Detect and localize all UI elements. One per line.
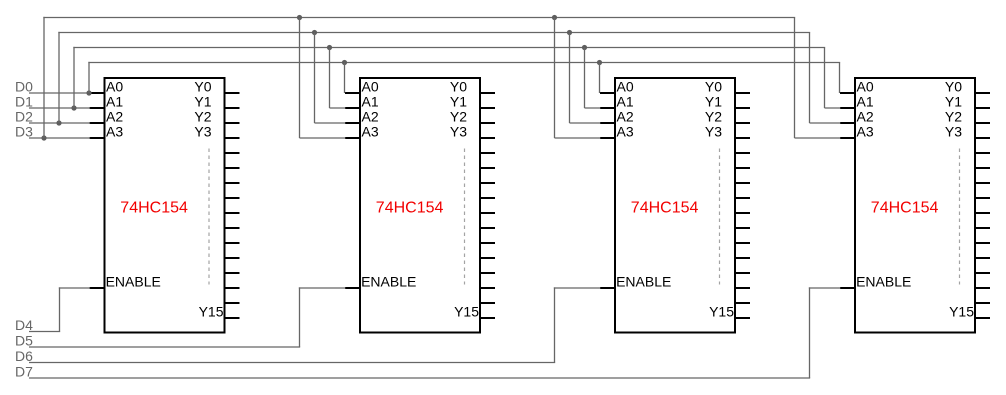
U4 pin Y5 <box>975 167 990 169</box>
svg-text:Y3: Y3 <box>705 124 722 140</box>
junction D3 tap at U2 <box>297 15 302 20</box>
U3 pin Y5 <box>735 167 750 169</box>
wire D2 drop to U2.A2 <box>314 33 316 124</box>
U2 pin Y12 <box>480 272 495 274</box>
wire D3 from label to U1.A3 <box>29 137 90 139</box>
svg-text:D4: D4 <box>15 317 33 333</box>
svg-text:A2: A2 <box>857 109 874 125</box>
U4 pin Y15 <box>975 317 990 319</box>
junction D3 tap at U3 <box>552 15 557 20</box>
U1 pin Y5 <box>225 167 240 169</box>
U2 pin Y10 <box>480 242 495 244</box>
wire D5 to U2.ENABLE <box>299 287 346 289</box>
junction D1 tap at U3 <box>582 45 587 50</box>
wire D5 horizontal <box>29 346 300 348</box>
U1 pin Y9 <box>225 227 240 229</box>
U2 pin A0 <box>345 92 360 94</box>
wire D0 riser to bus <box>88 62 90 93</box>
U2 pin Y15 <box>480 317 495 319</box>
U1 pin Y11 <box>225 257 240 259</box>
U4 pin Y11 <box>975 257 990 259</box>
U3 pin ENABLE <box>600 287 615 289</box>
U4 pin A3 <box>840 137 855 139</box>
svg-text:A3: A3 <box>362 124 379 140</box>
wire D7 riser <box>809 287 811 378</box>
wire D1 drop to U3.A1 <box>584 48 586 109</box>
svg-text:D3: D3 <box>15 124 33 140</box>
svg-text:A0: A0 <box>362 79 379 95</box>
wire D0 from label to U1.A0 <box>29 92 90 94</box>
U1 pin Y14 <box>225 302 240 304</box>
U2 pin Y3 <box>480 137 495 139</box>
U3 pin Y0 <box>735 92 750 94</box>
svg-text:Y2: Y2 <box>945 109 962 125</box>
wire D3 run to U4.A3 <box>795 137 841 139</box>
wire D7 to U4.ENABLE <box>809 287 841 289</box>
svg-text:A1: A1 <box>857 94 874 110</box>
U1 pin Y13 <box>225 287 240 289</box>
wire D1 bus <box>73 47 825 49</box>
junction D3 at U1 riser <box>41 135 46 140</box>
svg-text:D6: D6 <box>15 348 33 364</box>
U3 pin Y10 <box>735 242 750 244</box>
svg-text:ENABLE: ENABLE <box>616 274 671 290</box>
wire D1 run to U4.A1 <box>825 107 841 109</box>
U4 pin Y9 <box>975 227 990 229</box>
decoder U1 74HC154 body <box>105 78 225 333</box>
svg-text:D1: D1 <box>15 94 33 110</box>
U2 pin A2 <box>345 122 360 124</box>
svg-text:Y0: Y0 <box>945 79 962 95</box>
U4 pin Y2 <box>975 122 990 124</box>
wire D3 bus <box>43 17 795 19</box>
wire D0 drop to U2.A0 <box>344 63 346 94</box>
U1 outputs ellipsis <box>208 149 210 285</box>
svg-text:Y2: Y2 <box>194 109 211 125</box>
svg-text:D2: D2 <box>15 109 33 125</box>
U2 pin A1 <box>345 107 360 109</box>
U3 pin Y14 <box>735 302 750 304</box>
svg-text:A0: A0 <box>106 79 123 95</box>
svg-text:A3: A3 <box>106 124 123 140</box>
U4 pin Y12 <box>975 272 990 274</box>
U2 pin Y14 <box>480 302 495 304</box>
wire D1 drop to U2.A1 <box>329 48 331 109</box>
U4 pin Y3 <box>975 137 990 139</box>
U2 pin Y0 <box>480 92 495 94</box>
U1 pin A2 <box>90 122 105 124</box>
U3 pin Y4 <box>735 152 750 154</box>
U1 pin Y3 <box>225 137 240 139</box>
U1 pin Y8 <box>225 212 240 214</box>
wire D4 riser <box>59 287 61 331</box>
U4 outputs ellipsis <box>959 149 961 285</box>
wire D1 drop to U4.A1 <box>824 48 826 109</box>
U1 pin Y0 <box>225 92 240 94</box>
svg-text:D5: D5 <box>15 333 33 349</box>
svg-text:Y0: Y0 <box>705 79 722 95</box>
U2 pin Y6 <box>480 182 495 184</box>
junction D0 tap at U2 <box>342 60 347 65</box>
U3 pin A3 <box>600 137 615 139</box>
U3 pin Y2 <box>735 122 750 124</box>
svg-text:A1: A1 <box>617 94 634 110</box>
svg-text:Y15: Y15 <box>454 304 479 320</box>
wire D4 to U1.ENABLE <box>59 287 90 289</box>
U2 pin Y8 <box>480 212 495 214</box>
svg-text:Y1: Y1 <box>705 94 722 110</box>
U1 pin Y1 <box>225 107 240 109</box>
wire D2 riser to bus <box>58 32 60 123</box>
U1 pin Y7 <box>225 197 240 199</box>
svg-text:D0: D0 <box>15 79 33 95</box>
U1 pin Y2 <box>225 122 240 124</box>
U4 pin A0 <box>840 92 855 94</box>
U1 pin Y6 <box>225 182 240 184</box>
wire D2 run to U2.A2 <box>315 122 346 124</box>
U4 pin Y13 <box>975 287 990 289</box>
wire D3 drop to U2.A3 <box>299 18 301 139</box>
svg-text:Y3: Y3 <box>194 124 211 140</box>
U4 pin A2 <box>840 122 855 124</box>
U3 pin Y13 <box>735 287 750 289</box>
wire D2 run to U4.A2 <box>810 122 841 124</box>
U2 pin ENABLE <box>345 287 360 289</box>
svg-text:Y15: Y15 <box>199 304 224 320</box>
wire D3 run to U2.A3 <box>300 137 346 139</box>
svg-text:A2: A2 <box>617 109 634 125</box>
U3 pin A1 <box>600 107 615 109</box>
wire D1 from label to U1.A1 <box>29 107 90 109</box>
wire D1 run to U3.A1 <box>585 107 601 109</box>
U2 outputs ellipsis <box>464 149 466 285</box>
wire D1 riser to bus <box>73 47 75 108</box>
wire D6 to U3.ENABLE <box>554 287 601 289</box>
U1 pin A0 <box>90 92 105 94</box>
U1 pin A1 <box>90 107 105 109</box>
wire D2 bus <box>58 32 810 34</box>
svg-text:A1: A1 <box>106 94 123 110</box>
decoder U3 74HC154 body <box>615 78 735 333</box>
U2 pin Y1 <box>480 107 495 109</box>
U3 pin Y7 <box>735 197 750 199</box>
wire D6 riser <box>554 287 556 362</box>
wire D2 drop to U3.A2 <box>569 33 571 124</box>
svg-text:74HC154: 74HC154 <box>120 199 188 216</box>
svg-text:A2: A2 <box>106 109 123 125</box>
svg-text:Y3: Y3 <box>945 124 962 140</box>
svg-text:Y2: Y2 <box>705 109 722 125</box>
svg-text:Y0: Y0 <box>450 79 467 95</box>
U2 pin Y9 <box>480 227 495 229</box>
U3 pin Y8 <box>735 212 750 214</box>
U4 pin A1 <box>840 107 855 109</box>
wire D4 horizontal <box>29 331 60 333</box>
wire D1 run to U2.A1 <box>330 107 346 109</box>
U2 pin Y5 <box>480 167 495 169</box>
wire D7 horizontal <box>29 377 810 379</box>
junction D2 tap at U2 <box>312 30 317 35</box>
U3 pin Y15 <box>735 317 750 319</box>
svg-text:Y1: Y1 <box>450 94 467 110</box>
U2 pin Y4 <box>480 152 495 154</box>
wire D2 drop to U4.A2 <box>809 33 811 124</box>
wire D3 drop to U4.A3 <box>794 18 796 139</box>
U4 pin Y7 <box>975 197 990 199</box>
U3 outputs ellipsis <box>719 149 721 285</box>
wire D5 riser <box>299 287 301 347</box>
junction D1 tap at U2 <box>327 45 332 50</box>
U2 pin Y2 <box>480 122 495 124</box>
U3 pin Y9 <box>735 227 750 229</box>
U2 pin Y11 <box>480 257 495 259</box>
U1 pin A3 <box>90 137 105 139</box>
decoder U4 74HC154 body <box>855 78 975 333</box>
U4 pin Y8 <box>975 212 990 214</box>
U3 pin Y11 <box>735 257 750 259</box>
svg-text:A1: A1 <box>362 94 379 110</box>
junction D1 at U1 riser <box>71 105 76 110</box>
svg-text:ENABLE: ENABLE <box>361 274 416 290</box>
U2 pin Y13 <box>480 287 495 289</box>
U3 pin Y3 <box>735 137 750 139</box>
U3 pin A0 <box>600 92 615 94</box>
U1 pin Y15 <box>225 317 240 319</box>
wire D2 run to U3.A2 <box>570 122 601 124</box>
decoder U2 74HC154 body <box>360 78 480 333</box>
junction D0 tap at U3 <box>597 60 602 65</box>
U4 pin ENABLE <box>840 287 855 289</box>
U1 pin Y10 <box>225 242 240 244</box>
U4 pin Y10 <box>975 242 990 244</box>
U1 pin Y4 <box>225 152 240 154</box>
svg-text:Y2: Y2 <box>450 109 467 125</box>
svg-text:A3: A3 <box>857 124 874 140</box>
U2 pin A3 <box>345 137 360 139</box>
U3 pin Y12 <box>735 272 750 274</box>
svg-text:Y1: Y1 <box>194 94 211 110</box>
wire D0 bus <box>88 62 840 64</box>
wire D0 drop to U3.A0 <box>599 63 601 94</box>
svg-text:Y3: Y3 <box>450 124 467 140</box>
svg-text:A0: A0 <box>617 79 634 95</box>
wire D3 run to U3.A3 <box>555 137 601 139</box>
svg-text:A3: A3 <box>617 124 634 140</box>
wire D6 horizontal <box>29 362 555 364</box>
svg-text:ENABLE: ENABLE <box>856 274 911 290</box>
junction D2 tap at U3 <box>567 30 572 35</box>
junction D2 at U1 riser <box>56 120 61 125</box>
svg-text:D7: D7 <box>15 364 33 380</box>
U3 pin Y1 <box>735 107 750 109</box>
U4 pin Y0 <box>975 92 990 94</box>
U4 pin Y14 <box>975 302 990 304</box>
svg-text:Y1: Y1 <box>945 94 962 110</box>
wire D2 from label to U1.A2 <box>29 122 90 124</box>
U3 pin Y6 <box>735 182 750 184</box>
U3 pin A2 <box>600 122 615 124</box>
svg-text:Y15: Y15 <box>949 304 974 320</box>
svg-text:Y0: Y0 <box>194 79 211 95</box>
junction D0 at U1 riser <box>86 90 91 95</box>
svg-text:74HC154: 74HC154 <box>376 199 444 216</box>
wire D3 riser to bus <box>43 17 45 138</box>
U4 pin Y6 <box>975 182 990 184</box>
wire D0 drop to U4.A0 <box>839 63 841 94</box>
U1 pin Y12 <box>225 272 240 274</box>
svg-text:A0: A0 <box>857 79 874 95</box>
U4 pin Y1 <box>975 107 990 109</box>
svg-text:Y15: Y15 <box>709 304 734 320</box>
wire D3 drop to U3.A3 <box>554 18 556 139</box>
U4 pin Y4 <box>975 152 990 154</box>
svg-text:A2: A2 <box>362 109 379 125</box>
svg-text:74HC154: 74HC154 <box>871 199 939 216</box>
U1 pin ENABLE <box>90 287 105 289</box>
svg-text:ENABLE: ENABLE <box>106 274 161 290</box>
U2 pin Y7 <box>480 197 495 199</box>
svg-text:74HC154: 74HC154 <box>631 199 699 216</box>
